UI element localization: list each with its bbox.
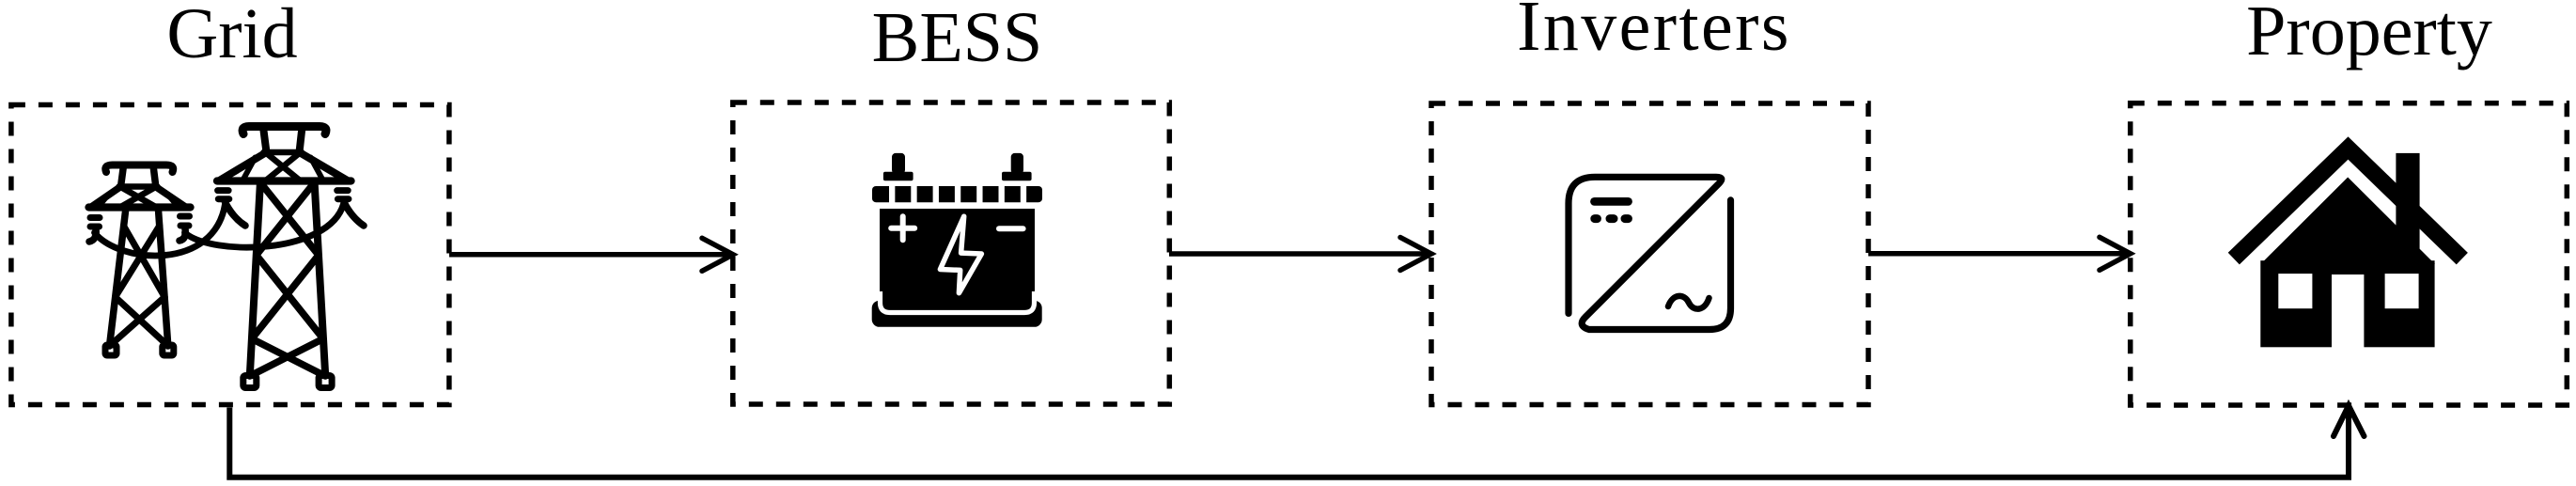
svg-text:BESS: BESS: [872, 0, 1043, 77]
inverter icon: [1569, 177, 1731, 329]
svg-text:Property: Property: [2246, 0, 2492, 71]
svg-text:Inverters: Inverters: [1517, 0, 1791, 66]
pylon large (right transmission tower): [217, 127, 364, 388]
svg-text:Grid: Grid: [166, 0, 297, 73]
node Inverters label: [1517, 0, 1791, 66]
battery BESS icon: [872, 153, 1042, 327]
node Inverters box: [1431, 103, 1868, 405]
wire bypass Grid to Property: [229, 406, 2364, 478]
node Property box: [2131, 103, 2568, 405]
node Grid box: [11, 105, 449, 405]
wire arrow Grid to BESS: [449, 238, 733, 271]
wire arrow BESS to Inverters: [1169, 238, 1431, 271]
house Property icon: [2234, 149, 2462, 349]
node Grid label: [166, 0, 297, 73]
wire catenary left-pylon to right-pylon (phase 2): [185, 204, 344, 247]
wire catenary left-pylon to right-pylon (phase 1): [95, 204, 226, 256]
node Property label: [2246, 0, 2492, 71]
wire arrow Inverters to Property: [1868, 237, 2131, 270]
node BESS label: [872, 0, 1043, 77]
pylon small (left transmission tower): [89, 165, 191, 356]
node BESS box: [733, 102, 1170, 404]
